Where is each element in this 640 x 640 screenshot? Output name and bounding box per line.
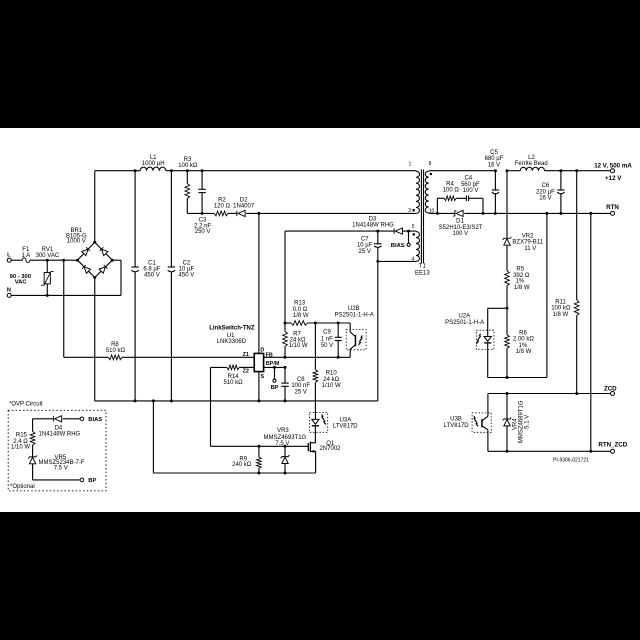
wire U2A bottom line bbox=[488, 377, 547, 379]
junction C2 bottom bbox=[170, 399, 173, 402]
resistor R5 bbox=[505, 267, 530, 309]
junction D pin bbox=[257, 212, 260, 215]
wire Z1 line bbox=[64, 356, 255, 358]
svg-text:6.8 µF: 6.8 µF bbox=[143, 267, 160, 273]
label PI number bbox=[553, 457, 589, 463]
transformer T1 secondary bbox=[425, 161, 434, 215]
svg-text:1/8 W: 1/8 W bbox=[514, 285, 530, 291]
wire U2A top line bbox=[488, 307, 507, 309]
svg-text:7.5 V: 7.5 V bbox=[54, 466, 68, 472]
svg-text:BIAS: BIAS bbox=[391, 243, 405, 249]
svg-text:1/10 W: 1/10 W bbox=[11, 444, 30, 450]
wire bias return bbox=[377, 261, 379, 401]
terminal L bbox=[7, 252, 11, 262]
svg-text:BP: BP bbox=[88, 478, 96, 484]
svg-text:D3: D3 bbox=[369, 216, 377, 222]
svg-text:PI-9306-021721: PI-9306-021721 bbox=[553, 457, 589, 463]
svg-text:N: N bbox=[7, 288, 11, 294]
transformer T1 primary bbox=[408, 161, 419, 214]
resistor R7 bbox=[283, 332, 308, 350]
diode D2 bbox=[233, 197, 255, 216]
svg-text:C9: C9 bbox=[323, 329, 331, 335]
wire gate line bbox=[211, 445, 309, 447]
svg-text:24 kΩ: 24 kΩ bbox=[323, 377, 339, 383]
svg-text:1N4007: 1N4007 bbox=[233, 203, 255, 209]
resistor R8 bbox=[106, 342, 126, 360]
svg-text:1/10 W: 1/10 W bbox=[322, 383, 341, 389]
zener VR5 bbox=[28, 455, 85, 480]
junction BP drop bbox=[273, 366, 276, 369]
junction bridge left bbox=[76, 259, 79, 262]
svg-text:U2B: U2B bbox=[348, 306, 360, 312]
svg-text:16 V: 16 V bbox=[539, 196, 551, 202]
svg-text:PS2501-1-H-A: PS2501-1-H-A bbox=[335, 313, 374, 319]
resistor R6 bbox=[505, 308, 535, 377]
svg-text:1/8 W: 1/8 W bbox=[552, 312, 568, 318]
svg-text:1/8 W: 1/8 W bbox=[293, 313, 309, 319]
svg-text:C8: C8 bbox=[297, 377, 305, 383]
wire BP/M line bbox=[264, 366, 285, 368]
diode D4 bbox=[39, 416, 81, 438]
terminal RTN bbox=[606, 204, 619, 216]
junction C5 bottom bbox=[494, 212, 497, 215]
junction C8 bottom bbox=[284, 399, 287, 402]
junction R11 bottom bbox=[575, 392, 578, 395]
junction VR3 top bbox=[284, 445, 287, 448]
junction R10 top bbox=[314, 322, 317, 325]
svg-text:R5: R5 bbox=[516, 267, 524, 273]
opto U3A LED bbox=[310, 413, 359, 443]
svg-text:5: 5 bbox=[412, 224, 415, 230]
svg-text:R11: R11 bbox=[555, 299, 566, 305]
svg-text:1: 1 bbox=[409, 161, 412, 167]
terminal BP bbox=[271, 379, 279, 391]
varistor RV1 bbox=[36, 247, 60, 295]
svg-text:VR3: VR3 bbox=[277, 428, 289, 434]
svg-text:450 V: 450 V bbox=[144, 273, 160, 279]
svg-text:R4: R4 bbox=[446, 182, 454, 188]
svg-text:4: 4 bbox=[412, 257, 415, 263]
capacitor C2 bbox=[168, 171, 195, 401]
junction C8 top bbox=[284, 366, 287, 369]
transformer T1 bias winding bbox=[412, 224, 420, 263]
svg-text:100 nF: 100 nF bbox=[291, 383, 310, 389]
capacitor C7 bbox=[357, 231, 382, 261]
svg-text:1%: 1% bbox=[516, 279, 525, 285]
svg-text:S52H10-E3/S2T: S52H10-E3/S2T bbox=[439, 225, 483, 231]
wire bridge bottom drop bbox=[94, 278, 96, 401]
svg-text:C6: C6 bbox=[542, 183, 550, 189]
svg-text:1000 V: 1000 V bbox=[67, 239, 86, 245]
capacitor C3 bbox=[194, 171, 211, 235]
junction C7 bottom bbox=[376, 260, 379, 263]
wire RTN rail bbox=[464, 212, 611, 214]
junction VR4 bottom bbox=[506, 450, 509, 453]
wire Z1 drop bbox=[63, 260, 65, 357]
resistor R10 bbox=[313, 370, 341, 389]
bridge diode bottom-right bbox=[99, 265, 107, 273]
zener VR4 bbox=[503, 394, 531, 452]
svg-text:R6: R6 bbox=[519, 331, 527, 337]
junction bridge right bbox=[111, 259, 114, 262]
polarity dot secondary bbox=[430, 173, 433, 176]
svg-text:1 nF: 1 nF bbox=[321, 336, 333, 342]
junction R7 bottom bbox=[284, 356, 287, 359]
wire bias drop bbox=[284, 231, 286, 357]
svg-text:EE13: EE13 bbox=[415, 271, 430, 277]
junction RV1 bottom bbox=[46, 294, 49, 297]
wire RTN to RTN_ZCD bbox=[590, 213, 592, 451]
inductor L2 bbox=[515, 155, 548, 171]
IC U1 LinkSwitch-TNZ bbox=[209, 326, 280, 380]
svg-text:D2: D2 bbox=[240, 197, 248, 203]
svg-text:100 Ω: 100 Ω bbox=[443, 188, 460, 194]
junction RV1 top bbox=[46, 259, 49, 262]
wire N line bbox=[11, 294, 121, 296]
svg-text:LTV817D: LTV817D bbox=[333, 424, 359, 430]
svg-text:12 V, 500 mA: 12 V, 500 mA bbox=[594, 163, 632, 170]
wire L line bbox=[11, 259, 78, 261]
svg-text:2N7002: 2N7002 bbox=[319, 446, 341, 452]
svg-text:T1: T1 bbox=[419, 264, 427, 270]
wire lower rail drop bbox=[152, 401, 154, 473]
junction snubber left bbox=[436, 212, 439, 215]
wire D2 line bbox=[187, 212, 416, 214]
junction Z1 feed bbox=[62, 259, 65, 262]
svg-text:MMSZ4689T1G: MMSZ4689T1G bbox=[518, 400, 524, 443]
junction C5 top bbox=[494, 169, 497, 172]
resistor R13 bbox=[291, 301, 309, 326]
svg-text:C4: C4 bbox=[464, 175, 472, 181]
svg-text:U2A: U2A bbox=[458, 314, 470, 320]
junction U2A return bbox=[545, 212, 548, 215]
junction C6 bottom bbox=[559, 212, 562, 215]
transformer T1 core bbox=[415, 170, 430, 277]
capacitor C9 bbox=[321, 323, 342, 357]
svg-text:50 V: 50 V bbox=[321, 343, 333, 349]
terminal BIAS bbox=[391, 243, 410, 249]
wire R14 drop to gate bbox=[210, 367, 212, 446]
svg-text:PS2501-1-H-A: PS2501-1-H-A bbox=[445, 320, 484, 326]
svg-text:D1: D1 bbox=[456, 219, 464, 225]
svg-text:3: 3 bbox=[408, 208, 411, 214]
svg-text:10 µF: 10 µF bbox=[179, 267, 195, 273]
svg-text:VAC: VAC bbox=[15, 280, 28, 286]
capacitor C5 bbox=[485, 150, 504, 213]
zener VR2 bbox=[503, 171, 544, 271]
svg-text:LTV817D: LTV817D bbox=[444, 423, 470, 429]
wire lower rail bbox=[153, 472, 315, 474]
resistor R11 bbox=[551, 171, 579, 394]
svg-text:*Optional: *Optional bbox=[10, 484, 35, 490]
svg-text:RTN: RTN bbox=[606, 204, 619, 211]
bridge diode bottom-left bbox=[82, 265, 90, 273]
wire pin10 to D1 bbox=[437, 212, 454, 214]
svg-text:+12 V: +12 V bbox=[605, 175, 622, 182]
svg-text:BZX79-B11: BZX79-B11 bbox=[512, 240, 543, 246]
svg-text:510 kΩ: 510 kΩ bbox=[106, 348, 126, 354]
wire pin4 line bbox=[378, 260, 416, 262]
svg-text:BP: BP bbox=[271, 385, 279, 391]
junction C2 top bbox=[170, 169, 173, 172]
svg-text:D: D bbox=[260, 348, 264, 354]
junction R9 top bbox=[257, 445, 260, 448]
svg-text:U3B: U3B bbox=[450, 417, 462, 423]
svg-text:C2: C2 bbox=[183, 260, 191, 266]
svg-text:Z1: Z1 bbox=[243, 352, 249, 358]
junction R9 bottom bbox=[257, 472, 260, 475]
junction U2A top bbox=[506, 307, 509, 310]
svg-text:BP/M: BP/M bbox=[266, 361, 280, 367]
svg-text:680 µF: 680 µF bbox=[485, 156, 504, 162]
resistor R14 bbox=[224, 365, 244, 386]
opto U2B bbox=[335, 306, 374, 357]
junction RTN_ZCD drop bbox=[589, 212, 592, 215]
junction bridge top bbox=[93, 241, 96, 244]
capacitor C8 bbox=[281, 367, 310, 401]
junction U2A bottom bbox=[506, 376, 509, 379]
svg-text:220 µF: 220 µF bbox=[536, 189, 555, 195]
wire R13 line bbox=[285, 322, 350, 324]
junction RTN_ZCD bbox=[589, 450, 592, 453]
svg-text:2.00 kΩ: 2.00 kΩ bbox=[513, 337, 534, 343]
junction C3 top bbox=[201, 169, 204, 172]
svg-text:C7: C7 bbox=[361, 236, 369, 242]
svg-text:25 V: 25 V bbox=[359, 249, 371, 255]
svg-text:R15: R15 bbox=[16, 432, 28, 438]
svg-text:7.5 V: 7.5 V bbox=[275, 441, 289, 447]
junction VR4 top bbox=[506, 392, 509, 395]
wire D3 line bbox=[285, 230, 416, 232]
svg-text:1000 µH: 1000 µH bbox=[142, 161, 165, 167]
wire R10 drop bbox=[314, 323, 316, 413]
zener VR3 bbox=[264, 428, 307, 473]
junction R3 top bbox=[186, 169, 189, 172]
svg-text:0,0 Ω: 0,0 Ω bbox=[293, 307, 308, 313]
svg-text:25 V: 25 V bbox=[295, 389, 307, 395]
junction S rail U1 bbox=[257, 399, 260, 402]
svg-text:ZCD: ZCD bbox=[604, 386, 617, 393]
wire OVP BP line bbox=[33, 479, 81, 481]
resistor R9 bbox=[232, 446, 261, 473]
resistor R15 bbox=[11, 419, 35, 457]
svg-text:R13: R13 bbox=[294, 301, 306, 307]
svg-text:300 VAC: 300 VAC bbox=[36, 253, 60, 259]
svg-text:R10: R10 bbox=[326, 371, 338, 377]
svg-text:100 kΩ: 100 kΩ bbox=[178, 163, 198, 169]
svg-text:RTN_ZCD: RTN_ZCD bbox=[598, 442, 627, 449]
svg-text:R2: R2 bbox=[218, 197, 226, 203]
terminal OVP BP bbox=[80, 478, 96, 484]
svg-text:240 kΩ: 240 kΩ bbox=[232, 462, 252, 468]
svg-text:C5: C5 bbox=[490, 150, 498, 156]
junction VR2 top bbox=[506, 169, 509, 172]
svg-text:120 Ω: 120 Ω bbox=[214, 203, 231, 209]
wire top rail bbox=[95, 170, 416, 172]
junction C6 top bbox=[559, 169, 562, 172]
terminal 12V bbox=[594, 163, 632, 182]
terminal RTN_ZCD bbox=[598, 442, 627, 454]
diode D3 bbox=[352, 216, 402, 234]
terminal OVP BIAS bbox=[80, 417, 102, 423]
wire BIAS tap drop bbox=[408, 231, 410, 243]
svg-text:1N4148W RHG: 1N4148W RHG bbox=[39, 432, 81, 438]
svg-text:U3A: U3A bbox=[340, 417, 352, 423]
label input voltage bbox=[10, 274, 31, 286]
svg-text:Z2: Z2 bbox=[243, 368, 249, 374]
wire Z2 line bbox=[211, 366, 255, 368]
bridge diode top-right bbox=[99, 247, 107, 255]
bridge BR1 frame bbox=[66, 228, 112, 277]
svg-text:Ferrite Bead: Ferrite Bead bbox=[515, 161, 548, 167]
fuse F1 bbox=[21, 247, 30, 262]
junction C1 top bbox=[134, 169, 137, 172]
svg-text:250 V: 250 V bbox=[195, 229, 211, 235]
bridge diode top-left bbox=[82, 247, 90, 255]
svg-text:L1: L1 bbox=[150, 155, 157, 161]
junction C3 bottom bbox=[201, 212, 204, 215]
junction lower drop bbox=[152, 399, 155, 402]
polarity dot bias bbox=[413, 233, 416, 236]
polarity dot primary bbox=[412, 209, 415, 212]
junction C9 bottom bbox=[337, 356, 340, 359]
junction R11 top bbox=[575, 169, 578, 172]
svg-text:10 µF: 10 µF bbox=[357, 243, 373, 249]
resistor R2 bbox=[214, 197, 231, 215]
wire S pin drop bbox=[258, 372, 260, 401]
junction bridge bottom bbox=[93, 276, 96, 279]
capacitor C6 bbox=[536, 171, 565, 214]
svg-text:BIAS: BIAS bbox=[88, 417, 102, 423]
svg-text:450 V: 450 V bbox=[179, 273, 195, 279]
OVP dashed box bbox=[8, 402, 106, 491]
svg-text:1/10 W: 1/10 W bbox=[289, 343, 308, 349]
diode D1 bbox=[439, 210, 483, 237]
svg-text:D4: D4 bbox=[55, 425, 63, 431]
junction R13 left bbox=[284, 322, 287, 325]
terminal N bbox=[7, 288, 11, 298]
terminal ZCD bbox=[604, 386, 617, 396]
capacitor C4 bbox=[461, 175, 480, 201]
svg-text:5.1 V: 5.1 V bbox=[525, 415, 531, 429]
junction C7 top bbox=[376, 230, 379, 233]
resistor R3 bbox=[178, 157, 198, 213]
junction C9 top bbox=[337, 322, 340, 325]
svg-text:C1: C1 bbox=[148, 260, 156, 266]
inductor L1 bbox=[140, 155, 166, 171]
junction C1 bottom bbox=[134, 399, 137, 402]
junction VR3 bottom bbox=[284, 472, 287, 475]
wire BP drop bbox=[274, 367, 276, 379]
svg-text:16 V: 16 V bbox=[488, 162, 500, 168]
svg-text:*OVP Circuit: *OVP Circuit bbox=[9, 402, 43, 408]
svg-text:1%: 1% bbox=[519, 343, 528, 349]
snubber loop bbox=[437, 198, 483, 213]
resistor R4 bbox=[443, 182, 460, 201]
junction BIAS tap bbox=[407, 230, 410, 233]
svg-text:100 V: 100 V bbox=[452, 231, 468, 237]
svg-text:1N4148W RHG: 1N4148W RHG bbox=[352, 223, 394, 229]
wire D pin drop bbox=[258, 213, 260, 353]
svg-text:LinkSwitch-TNZ: LinkSwitch-TNZ bbox=[209, 326, 255, 332]
wire S rail bbox=[95, 400, 378, 402]
svg-text:1 A: 1 A bbox=[21, 253, 30, 259]
svg-text:L: L bbox=[7, 252, 11, 258]
wire bridge top feed bbox=[94, 171, 96, 243]
transistor Q1 2N7002 bbox=[308, 441, 341, 473]
wire RTN_ZCD line bbox=[488, 450, 611, 452]
svg-text:100 kΩ: 100 kΩ bbox=[551, 306, 571, 312]
svg-text:LNK3306D: LNK3306D bbox=[217, 339, 247, 345]
svg-text:8: 8 bbox=[429, 161, 432, 167]
svg-text:11 V: 11 V bbox=[524, 246, 536, 252]
wire 12V rail bbox=[429, 171, 611, 214]
wire U2A return bbox=[546, 213, 548, 377]
svg-text:S: S bbox=[260, 374, 264, 380]
svg-text:510 kΩ: 510 kΩ bbox=[224, 380, 244, 386]
capacitor C1 bbox=[131, 171, 160, 401]
wire ZCD line bbox=[488, 393, 611, 395]
junction snubber right bbox=[482, 212, 485, 215]
wire bridge right to N bbox=[112, 260, 121, 295]
svg-text:L2: L2 bbox=[528, 155, 535, 161]
wire OVP bias line bbox=[33, 418, 81, 420]
svg-text:1/8 W: 1/8 W bbox=[516, 349, 532, 355]
wire FB line bbox=[264, 356, 351, 358]
opto U3B bbox=[444, 394, 491, 452]
svg-text:100 V: 100 V bbox=[463, 188, 479, 194]
opto U2A LED bbox=[445, 308, 494, 377]
